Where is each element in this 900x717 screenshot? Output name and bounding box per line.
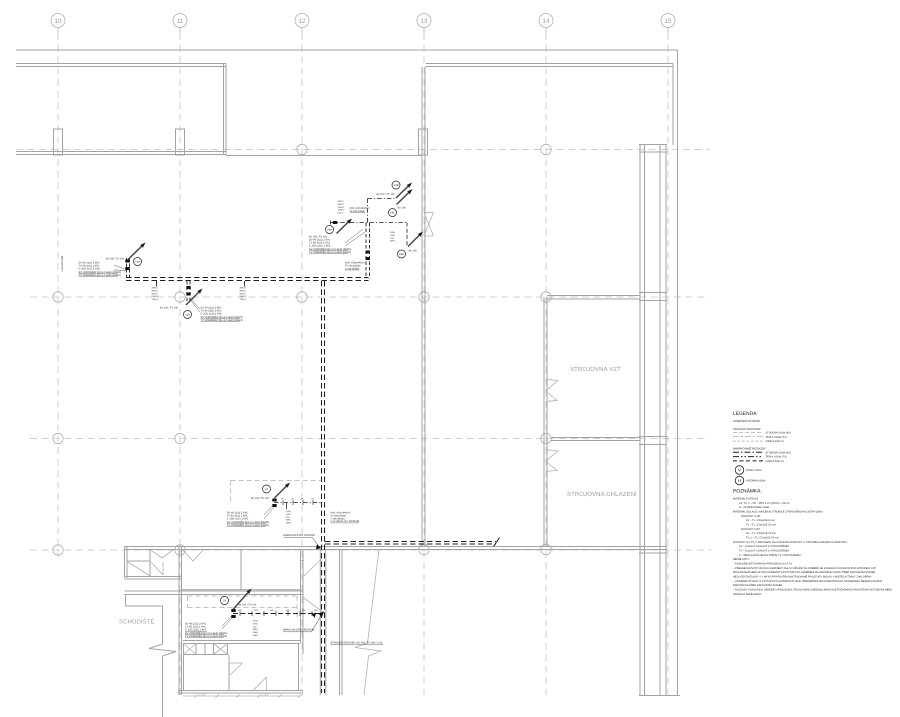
grid bubble 11	[173, 14, 187, 28]
svg-text:2NP15: 2NP15	[240, 292, 247, 295]
svg-text:5NP1: 5NP1	[286, 519, 292, 522]
valve V3	[231, 609, 235, 612]
column grid x423	[419, 129, 428, 155]
svg-text:TV 100 (DN50): TV 100 (DN50)	[345, 264, 361, 267]
svg-text:PITNÁ VODA: PITNÁ VODA	[747, 468, 762, 472]
svg-text:V: V	[738, 468, 741, 473]
svg-text:V3: V3	[223, 600, 227, 603]
riser stub left V1B tags	[156, 281, 158, 287]
svg-text:TV VODOMĚR Qn=2,5 4x25 (DN25): TV VODOMĚR Qn=2,5 4x25 (DN25)	[227, 523, 269, 527]
svg-text:V1A: V1A	[135, 261, 140, 264]
svg-text:10: 10	[54, 18, 62, 25]
svg-text:SV50-C: SV50-C	[338, 206, 346, 209]
shaft crossbar y440	[639, 436, 667, 438]
legend symbol V	[735, 466, 744, 475]
svg-text:POZ. STOUPAČKY: POZ. STOUPAČKY	[345, 262, 365, 265]
arrow V4B double	[396, 186, 408, 198]
svg-text:TV VODOMĚR Qn=2,5 4x25 (DN25): TV VODOMĚR Qn=2,5 4x25 (DN25)	[185, 634, 227, 638]
tag V4B	[392, 181, 400, 189]
pipe end tick	[494, 538, 500, 547]
svg-text:SV50: SV50	[286, 510, 292, 513]
arrow V4A	[337, 222, 349, 233]
svg-text:NÁPOJ NA STÁV. ROZVOD: NÁPOJ NA STÁV. ROZVOD	[283, 628, 315, 632]
leaders V1B	[191, 299, 201, 310]
grid bubble 12	[295, 14, 309, 28]
legend line sv new	[733, 451, 763, 453]
svg-text:POZNÁMKA:: POZNÁMKA:	[733, 488, 762, 495]
pipe main vertical run	[321, 281, 323, 693]
svg-text:POZ. STOUPAČKY: POZ. STOUPAČKY	[331, 512, 351, 515]
wall row296	[547, 295, 640, 297]
svg-text:R03: R03	[270, 609, 273, 612]
stair notch walls	[126, 595, 163, 645]
svg-text:2NP13: 2NP13	[152, 287, 159, 290]
svg-text:SV50: SV50	[253, 620, 259, 623]
svg-text:CIRKULACE (C): CIRKULACE (C)	[766, 460, 785, 463]
wall strojovna x545	[543, 297, 545, 546]
wall row547 long	[125, 546, 667, 548]
svg-text:2NP2: 2NP2	[390, 240, 396, 243]
wall sleeve X grid13	[424, 213, 434, 237]
tag V1B	[184, 311, 192, 319]
svg-text:5NP2: 5NP2	[286, 522, 292, 525]
legend symbol H	[735, 476, 744, 485]
valve riser x366	[366, 251, 370, 254]
grid node (546,438)	[541, 433, 551, 443]
svg-text:2NP15: 2NP15	[152, 292, 159, 295]
svg-text:TV50-C: TV50-C	[240, 298, 247, 301]
wall east inner	[672, 64, 674, 146]
svg-text:1%: 1%	[311, 498, 314, 501]
grid node (546,297)	[541, 292, 551, 302]
svg-text:2NP22: 2NP22	[338, 203, 345, 206]
dimension line bottom	[183, 695, 300, 697]
svg-text:V4C: V4C	[390, 212, 395, 215]
door symbol strojovna VZT	[546, 379, 558, 401]
dashed ceiling rect V2 room	[231, 480, 321, 482]
wall y592 band	[125, 590, 304, 592]
svg-text:+414,50=0,000: +414,50=0,000	[61, 255, 64, 272]
pipe V2 horizontal	[274, 502, 322, 504]
svg-text:SV 100: SV 100	[409, 250, 418, 253]
svg-text:11: 11	[177, 18, 184, 25]
riser stub V2	[286, 503, 288, 509]
grid line 302 vertical	[301, 33, 303, 701]
svg-text:TV – TL. IZOLACE 20 mm: TV – TL. IZOLACE 20 mm	[746, 524, 776, 527]
shaft crossbar y148	[639, 144, 667, 146]
svg-text:ROZVODY V NP:: ROZVODY V NP:	[741, 515, 761, 518]
grid line 668 vertical	[667, 33, 669, 695]
svg-text:NAVRHOVANÉ ROZVODY:: NAVRHOVANÉ ROZVODY:	[733, 447, 766, 451]
leaders V3	[222, 615, 233, 626]
wall y577	[125, 576, 182, 578]
svg-text:– PODLAŽNÍ KÓTOVÁNÍ NA PŘÍVODE: – PODLAŽNÍ KÓTOVÁNÍ NA PŘÍVODECH SV A TV…	[733, 562, 793, 566]
shaft box X right	[214, 644, 228, 655]
grid bubble 14	[539, 14, 553, 28]
svg-text:14: 14	[542, 18, 550, 25]
svg-text:STROJOVNA VZT: STROJOVNA VZT	[570, 366, 621, 373]
wall x340	[339, 550, 341, 696]
column grid x180	[176, 129, 185, 155]
svg-text:C25: C25	[253, 625, 258, 628]
svg-text:V2: V2	[265, 488, 269, 491]
svg-text:2NP21: 2NP21	[338, 200, 345, 203]
grid row y149	[16, 149, 709, 151]
partition x301	[300, 591, 302, 643]
svg-text:LEGENDA:: LEGENDA:	[733, 411, 758, 417]
arrow V1B	[186, 292, 199, 305]
svg-text:SV, TV, C – PP – PPR S 3,2 (PN: SV, TV, C – PP – PPR S 3,2 (PN16) – PN 1…	[739, 502, 790, 505]
grid node (58,550)	[53, 545, 63, 555]
shaft boxes row	[184, 644, 228, 655]
door symbol strojovna chlazeni	[546, 450, 558, 472]
tag V1A	[134, 258, 142, 266]
svg-text:NÁPOJ NA STÁV. ROZVOD: NÁPOJ NA STÁV. ROZVOD	[284, 533, 316, 537]
valve V2	[272, 499, 276, 502]
svg-text:OZNAČENÍ POTRUBÍ: OZNAČENÍ POTRUBÍ	[733, 419, 760, 423]
pipe V3 ticks	[239, 611, 241, 616]
svg-text:SV 100 / TV 100: SV 100 / TV 100	[238, 604, 257, 607]
svg-text:R03: R03	[314, 609, 317, 612]
arrow V3	[233, 593, 248, 610]
svg-text:– PŘESNÉ ROZVODY BUDOU NAVRŽEN: – PŘESNÉ ROZVODY BUDOU NAVRŽENY DLE VYUŽ…	[733, 566, 876, 570]
pipe dashdot v x367	[367, 199, 369, 223]
svg-text:TV50: TV50	[253, 622, 259, 625]
grid row y297	[30, 296, 709, 298]
pipe riser V1B	[186, 281, 188, 301]
grid node (58,297)	[53, 292, 63, 302]
grid node (180,438)	[175, 433, 185, 443]
svg-text:TV VODOMĚR Qn=2,5 4x25 (DN25): TV VODOMĚR Qn=2,5 4x25 (DN25)	[79, 273, 121, 277]
svg-text:POŽÁRNÍ VODA: POŽÁRNÍ VODA	[747, 479, 766, 483]
door leaf stair	[151, 562, 163, 575]
svg-text:V4E: V4E	[399, 253, 404, 256]
svg-text:STROJOVNA CHLAZENÍ: STROJOVNA CHLAZENÍ	[567, 490, 637, 498]
pipe dashdot v x407	[406, 223, 408, 248]
legend line tv old	[733, 436, 763, 438]
leaders V1A	[114, 265, 126, 270]
grid node (424,549)	[419, 544, 429, 554]
svg-text:SV 100 / TV 100: SV 100 / TV 100	[376, 193, 395, 196]
svg-text:2NP13: 2NP13	[240, 287, 247, 290]
grid node (180,297)	[175, 292, 185, 302]
pipe dashdot top h	[368, 198, 397, 200]
svg-text:C25: C25	[286, 516, 291, 519]
svg-text:1%: 1%	[301, 498, 304, 501]
grid line 546 vertical	[545, 33, 547, 695]
wall band y152 left	[16, 151, 226, 153]
wall pipe chase x321-325	[319, 550, 321, 696]
svg-text:STUDENÁ VODA (SV): STUDENÁ VODA (SV)	[766, 450, 791, 454]
room bottom line	[182, 589, 301, 591]
svg-text:SV – KULOVÝ KOHOUT S VYPOUŠTĚN: SV – KULOVÝ KOHOUT S VYPOUŠTĚNÍM	[739, 544, 789, 548]
wall top band left	[16, 63, 226, 65]
grid node (546,549)	[541, 544, 551, 554]
grid bubble 13	[417, 14, 431, 28]
svg-text:1 450: 1 450	[262, 694, 269, 697]
shaft crossbar y296	[639, 292, 667, 294]
arrow V1A	[128, 246, 142, 259]
tick end V4A line	[330, 221, 332, 225]
wall corridor x424	[421, 67, 423, 546]
door V stair top	[151, 550, 173, 558]
leaders V2	[264, 504, 274, 515]
pipe V3 horizontal	[233, 613, 322, 615]
svg-text:H: H	[738, 478, 741, 483]
arrow V4E	[408, 235, 419, 246]
grid node (302,297)	[297, 292, 307, 302]
svg-text:BARTOŠOVA PŘED ZAPOČETÍM STAVE: BARTOŠOVA PŘED ZAPOČETÍM STAVEB.	[733, 583, 783, 587]
svg-text:SV50: SV50	[390, 231, 396, 234]
svg-text:R03: R03	[286, 609, 289, 612]
pipe riser V1A	[126, 258, 128, 278]
svg-text:5NP3: 5NP3	[253, 628, 259, 631]
stair subroom diagonal	[128, 562, 150, 576]
svg-text:SV50-C: SV50-C	[152, 295, 160, 298]
tag V4A	[326, 226, 334, 234]
door V room1	[183, 550, 203, 561]
pipe branch east y543	[325, 541, 496, 543]
svg-text:TV – KULOVÝ KOHOUT S VYPOUŠTĚN: TV – KULOVÝ KOHOUT S VYPOUŠTĚNÍM	[739, 549, 789, 553]
grid node (424,297)	[419, 292, 429, 302]
shaft crossbar y550	[639, 552, 667, 554]
wall row438	[551, 437, 640, 439]
stair break line	[149, 644, 176, 656]
wall corner x224	[223, 64, 225, 155]
svg-text:R03: R03	[238, 609, 241, 612]
grid line 180 vertical	[179, 33, 181, 695]
room west wall	[183, 655, 185, 691]
grid node (180,550)	[175, 545, 185, 555]
svg-text:– STAVEBNÍ OTVORY A VÝSTUPOVÝC: – STAVEBNÍ OTVORY A VÝSTUPOVÝCH ARMATUR …	[733, 579, 883, 583]
wall line y155 mid	[226, 155, 421, 157]
shaft wall west pair	[639, 144, 641, 695]
door leaf corridor	[304, 560, 321, 577]
svg-text:V1B: V1B	[185, 314, 190, 317]
svg-text:SV 100 / TV 100: SV 100 / TV 100	[106, 258, 125, 261]
partition x301 upper	[300, 550, 302, 592]
small wall x303 low	[302, 637, 304, 654]
svg-text:V4A: V4A	[327, 229, 332, 232]
svg-text:H – POZINKOVANÁ OCEL: H – POZINKOVANÁ OCEL	[739, 505, 770, 509]
corridor wall x180	[178, 546, 180, 695]
grid node (58,438)	[53, 433, 63, 443]
grid bubble 15	[661, 14, 675, 28]
partition x241	[240, 550, 242, 591]
grid row y550	[30, 549, 711, 551]
pipe riser x366	[365, 223, 367, 279]
door leaf bottom room	[253, 677, 267, 691]
grid bubble 10	[51, 14, 65, 28]
svg-text:SV 100 / TV 100: SV 100 / TV 100	[160, 307, 179, 310]
svg-text:R03: R03	[302, 609, 305, 612]
svg-text:V 200 (DN50): V 200 (DN50)	[331, 517, 345, 520]
column grid x58	[54, 129, 63, 155]
svg-text:1 450: 1 450	[199, 694, 206, 697]
svg-text:TV VODOMĚR Qn=2,5 4x25 (DN25): TV VODOMĚR Qn=2,5 4x25 (DN25)	[309, 250, 351, 254]
svg-text:NEJVYŠŠÍ ROZVODY V 1.NP A 5.PP: NEJVYŠŠÍ ROZVODY V 1.NP A 5.PP PRO REKON…	[733, 574, 872, 578]
svg-text:TV 200 (DN50): TV 200 (DN50)	[331, 514, 347, 517]
pipe dashdot mid h	[331, 222, 408, 224]
svg-text:1%: 1%	[281, 498, 284, 501]
stair subroom divider v	[149, 550, 151, 577]
tag V4C	[389, 209, 397, 217]
wall east outer	[677, 50, 679, 696]
grid row y438	[30, 438, 709, 440]
svg-text:MATERIÁL POTRUBÍ:: MATERIÁL POTRUBÍ:	[733, 497, 758, 501]
valve V1B	[186, 286, 190, 289]
riser stub right V1B tags	[244, 281, 246, 287]
door leaf corridor lower	[303, 597, 324, 613]
wall bottom east	[639, 695, 680, 697]
legend line sv old	[733, 431, 763, 433]
stair west wall	[124, 546, 126, 578]
svg-text:– ROZVODY VODOVODU VEDENÉ V PO: – ROZVODY VODOVODU VEDENÉ V PODLAZÍCH, P…	[733, 587, 892, 591]
valve V1A	[125, 260, 129, 263]
svg-text:V4B: V4B	[394, 184, 399, 187]
svg-text:C25: C25	[390, 237, 395, 240]
svg-text:TV, C – TL. IZOLACE 25 mm: TV, C – TL. IZOLACE 25 mm	[746, 537, 779, 540]
svg-text:STUDENÁ VODA (SV): STUDENÁ VODA (SV)	[766, 430, 791, 434]
arrow V2	[275, 486, 287, 498]
svg-text:STÁVAJÍCÍ ROZVODY:: STÁVAJÍCÍ ROZVODY:	[733, 427, 761, 431]
svg-text:TV50-C: TV50-C	[152, 298, 159, 301]
svg-text:POZ. STOUPAČKY: POZ. STOUPAČKY	[350, 207, 370, 210]
diagonal break line	[355, 550, 381, 696]
wall y642	[183, 640, 300, 642]
svg-text:13: 13	[420, 18, 428, 25]
legend line c new	[733, 460, 763, 462]
svg-text:CIRKULACE (C): CIRKULACE (C)	[766, 440, 785, 443]
wall top band right	[426, 63, 674, 65]
leaders V4A block	[345, 229, 363, 243]
svg-text:R03: R03	[254, 609, 257, 612]
room divider x229	[228, 655, 230, 691]
svg-text:TV50: TV50	[390, 234, 396, 237]
svg-text:15: 15	[664, 18, 672, 25]
svg-text:ROZVODY SV, TV, C NAPOJENY NA: ROZVODY SV, TV, C NAPOJENY NA STÁVAJÍCÍ …	[733, 540, 848, 544]
svg-text:SCHODIŠTĚ: SCHODIŠTĚ	[119, 618, 155, 626]
tag V4E	[398, 250, 406, 258]
grid node (546,149)	[541, 144, 551, 154]
shaft box X left	[184, 644, 197, 655]
svg-text:SV50-C: SV50-C	[240, 295, 248, 298]
svg-text:TV50-C: TV50-C	[338, 209, 345, 212]
svg-text:NAVAZUJÍ ŠEDÉ BARVY.: NAVAZUJÍ ŠEDÉ BARVY.	[733, 592, 763, 596]
grid line 424 vertical	[423, 33, 425, 695]
shaft wall east pair	[659, 144, 661, 695]
room east wall	[298, 644, 300, 691]
svg-text:TEPLÁ VODA (TV): TEPLÁ VODA (TV)	[766, 435, 787, 439]
svg-text:ROZVODY 5.PP:: ROZVODY 5.PP:	[741, 528, 761, 531]
svg-text:2NP14: 2NP14	[240, 289, 247, 292]
svg-text:1%: 1%	[291, 498, 294, 501]
svg-text:TV50: TV50	[286, 513, 292, 516]
svg-text:MATERIÁL IZOLACE: NAVLÉKACÍ TR: MATERIÁL IZOLACE: NAVLÉKACÍ TRUBICE Z PĚ…	[733, 510, 823, 514]
wall bottom band	[178, 690, 303, 692]
svg-text:SV – TL. IZOLACE 25 mm: SV – TL. IZOLACE 25 mm	[746, 532, 776, 535]
svg-text:C – REGULAČNÍ VENTIL ZPĚTNÝ S: C – REGULAČNÍ VENTIL ZPĚTNÝ S VYPOUŠTĚNÍ…	[739, 553, 800, 557]
svg-text:12: 12	[298, 18, 306, 25]
legend line c old	[733, 440, 763, 442]
pipe V2 ticks	[282, 500, 284, 505]
door leaf x229	[228, 663, 230, 676]
grid line 58 vertical	[57, 33, 59, 562]
pipe main horizontal run SV/TV	[126, 277, 369, 279]
wall top outer	[16, 49, 678, 51]
svg-text:TV VODOMĚR Qn=2,5 4x25 (DN25): TV VODOMĚR Qn=2,5 4x25 (DN25)	[201, 318, 243, 322]
stair subroom divider h	[127, 560, 150, 562]
svg-text:5NP4: 5NP4	[253, 631, 259, 634]
tag V2	[263, 485, 271, 493]
svg-text:5NP5: 5NP5	[253, 634, 259, 637]
tag V3	[221, 597, 229, 605]
svg-text:SV – TL. IZOLACE 9 mm: SV – TL. IZOLACE 9 mm	[746, 519, 775, 522]
svg-text:BĚŽNÉ KÓTY:: BĚŽNÉ KÓTY:	[733, 557, 750, 561]
svg-text:ZPŮSOB NAPOJENÍ NUTNO UPŘESNIT: ZPŮSOB NAPOJENÍ NUTNO UPŘESNIT A POTVRDI…	[733, 570, 876, 574]
legend line tv new	[733, 456, 763, 458]
grid node (302,149)	[297, 144, 307, 154]
svg-text:C25-C: C25-C	[338, 212, 344, 215]
valve V4A	[333, 221, 337, 224]
svg-text:SV 100: SV 100	[398, 207, 407, 210]
dashed ceiling rect V3 room	[188, 595, 298, 597]
svg-text:TEPLÁ VODA (TV): TEPLÁ VODA (TV)	[766, 455, 787, 459]
svg-text:SV 100 / TV 100: SV 100 / TV 100	[251, 497, 270, 500]
svg-text:2NP14: 2NP14	[152, 289, 159, 292]
svg-text:STÁVAJÍCÍ ROZVODY SV 200 / TV: STÁVAJÍCÍ ROZVODY SV 200 / TV 160 / C 63	[331, 641, 383, 645]
